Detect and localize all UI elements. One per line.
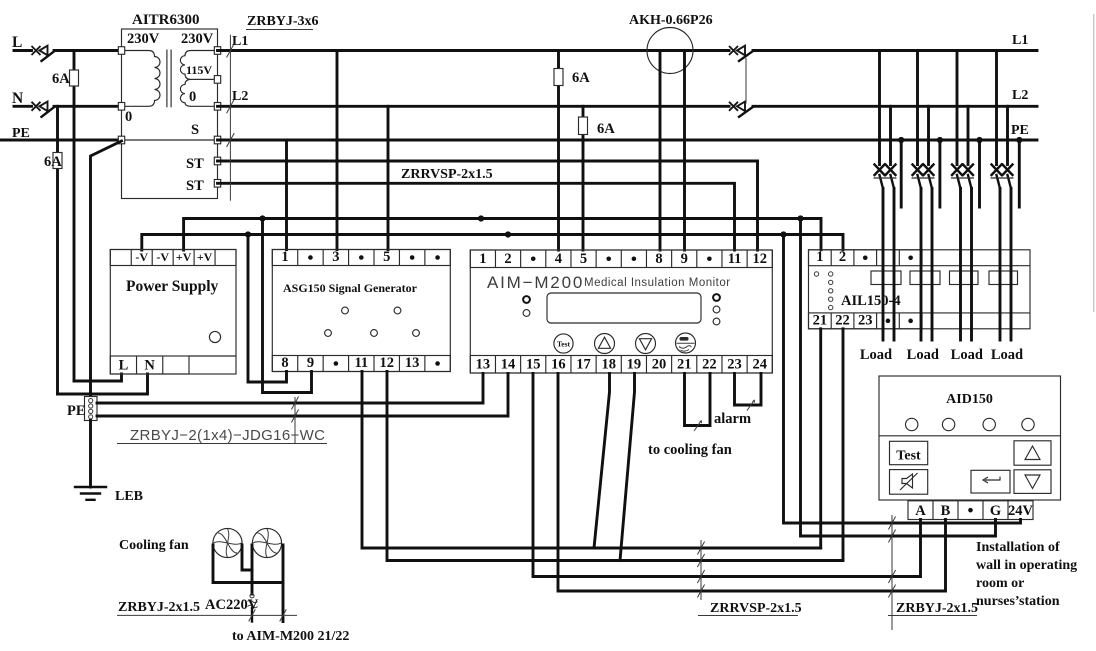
- disconnect switch on N: [32, 102, 55, 117]
- fuse 6A on N feed: [56, 106, 59, 394]
- svg-text:-V: -V: [135, 250, 148, 264]
- ASG150 top terminal strip: [272, 250, 450, 266]
- cooling fan motor 2: [252, 528, 281, 557]
- svg-text:ZRRVSP-2x1.5: ZRRVSP-2x1.5: [710, 601, 802, 616]
- svg-text:+V: +V: [176, 250, 192, 264]
- ASG150 LEDs: [342, 307, 349, 314]
- wire PE drop from transformer to PE terminal block: [91, 141, 122, 397]
- load branch breaker 2 pole L2: [927, 106, 930, 164]
- wire ASG9 to +V bus: [263, 219, 312, 393]
- AIM-M200 LCD display: [547, 293, 701, 323]
- svg-text:ZRBYJ-2x1.5: ZRBYJ-2x1.5: [896, 601, 978, 616]
- svg-text:8: 8: [281, 355, 288, 371]
- svg-text:wall in operating: wall in operating: [976, 558, 1077, 573]
- svg-text:22: 22: [835, 312, 850, 328]
- CT lead to AIM terminal 8: [659, 51, 662, 251]
- svg-text:Load: Load: [991, 347, 1023, 363]
- svg-text:115V: 115V: [186, 63, 212, 77]
- AIM-M200 Test button: [554, 334, 573, 353]
- AID150 separator line: [879, 435, 1061, 437]
- svg-text:L: L: [119, 358, 129, 374]
- svg-text:B: B: [941, 503, 951, 519]
- svg-text:5: 5: [580, 251, 587, 267]
- wire +V bus to AID G: [801, 219, 996, 537]
- AIM-M200 right LEDs: [713, 294, 720, 301]
- AIL current transformer CT2: [910, 271, 940, 285]
- wire L2 to ASG terminal 5: [387, 106, 390, 249]
- svg-text:L: L: [12, 34, 22, 51]
- wire -V bus to AID 24V: [784, 235, 1021, 524]
- svg-text:nurses’station: nurses’station: [976, 594, 1060, 609]
- svg-text:11: 11: [728, 251, 742, 267]
- fuse 6A L2 to AIM terminal 5: [582, 106, 585, 250]
- PE terminal block: [85, 397, 98, 421]
- svg-text:N: N: [144, 358, 155, 374]
- AID150 down button: [1014, 470, 1051, 494]
- svg-text:PE: PE: [67, 403, 86, 419]
- load current monitor AIL150-4 box: [809, 250, 1031, 329]
- svg-text:17: 17: [576, 357, 591, 373]
- svg-text:AIM−M200: AIM−M200: [487, 273, 584, 292]
- svg-text:230V: 230V: [127, 31, 160, 47]
- wire S line to ASG terminal 1: [285, 140, 288, 250]
- cooling fan wiring: [213, 545, 283, 583]
- svg-text:22: 22: [702, 357, 717, 373]
- AC source terminal: [250, 594, 254, 598]
- svg-text:21: 21: [677, 357, 692, 373]
- svg-text:1: 1: [479, 251, 486, 267]
- svg-text:2: 2: [504, 251, 511, 267]
- switch mechanical link: [745, 58, 747, 104]
- load branch breaker 3 pole L2: [967, 106, 970, 164]
- load branch breaker 2 link bar: [912, 177, 935, 179]
- svg-text:2: 2: [839, 249, 846, 265]
- load branch breaker 1 pole L1: [878, 51, 881, 165]
- CT lead to AIM terminal 9: [683, 51, 686, 251]
- AIM-M200 up button: [595, 334, 615, 354]
- wire ASG8 to -V bus: [248, 235, 287, 383]
- svg-text:24: 24: [752, 357, 767, 373]
- svg-text:S: S: [191, 122, 199, 138]
- wire bus L2: [218, 105, 730, 108]
- svg-text:AKH-0.66P26: AKH-0.66P26: [629, 13, 713, 28]
- svg-text:9: 9: [307, 355, 314, 371]
- svg-text:12: 12: [752, 251, 767, 267]
- fuse 6A L1 to AIM terminal 4: [557, 51, 560, 251]
- svg-text:Cooling fan: Cooling fan: [119, 538, 189, 553]
- svg-text:0: 0: [189, 89, 196, 105]
- svg-text:13: 13: [405, 355, 420, 371]
- drawing border fragment right edge: [1093, 14, 1095, 312]
- svg-text:L2: L2: [232, 89, 248, 104]
- svg-text:21: 21: [813, 312, 828, 328]
- svg-text:alarm: alarm: [714, 411, 751, 427]
- power bus -V net y234: [142, 235, 843, 251]
- svg-text:PE: PE: [1011, 123, 1029, 138]
- load branch breaker 1 pole L2: [889, 106, 892, 164]
- load branch breaker 4 link bar: [991, 177, 1014, 179]
- AID150 mute button: [890, 470, 928, 495]
- svg-text:1: 1: [816, 249, 823, 265]
- AID150 terminal strip: [908, 501, 1033, 520]
- cable marker ZRRVSP-2x1.5 bottom: [700, 540, 702, 600]
- svg-text:ZRBYJ-3x6: ZRBYJ-3x6: [247, 14, 319, 29]
- wire RS485 B bus ASG12 AIM19 to AIL22: [387, 372, 843, 561]
- load branch breaker 2 pole L1: [916, 51, 919, 165]
- svg-text:AC220V: AC220V: [205, 597, 259, 613]
- wire RS485 A bus ASG11 AIM18 to AIL21: [362, 372, 821, 549]
- power bus +V net y218: [184, 219, 821, 251]
- svg-text:18: 18: [601, 357, 616, 373]
- wire AIM23 AIM24 alarm stub: [735, 374, 762, 406]
- AIM-M200 top terminal strip: [470, 250, 772, 268]
- wire ST1 to AIM terminal 12: [218, 161, 758, 250]
- svg-text:23: 23: [727, 357, 742, 373]
- svg-text:Load: Load: [951, 347, 983, 363]
- svg-text:23: 23: [858, 312, 873, 328]
- svg-text:ST: ST: [186, 178, 204, 194]
- svg-text:LEB: LEB: [115, 489, 143, 504]
- wire PE block to earth: [89, 421, 92, 488]
- AIM-M200 mute button: [676, 333, 696, 353]
- svg-text:16: 16: [551, 357, 566, 373]
- svg-text:+V: +V: [197, 250, 213, 264]
- svg-text:1: 1: [281, 249, 288, 265]
- svg-text:Medical Insulation Monitor: Medical Insulation Monitor: [584, 277, 731, 289]
- AIL current transformer CT3: [950, 271, 979, 285]
- wire AIM21 AIM22 cooling fan stub: [685, 374, 711, 426]
- wire AIM14 to PE block: [97, 374, 508, 417]
- AIL current transformer CT4: [989, 271, 1018, 285]
- disconnect switch on L: [32, 46, 55, 61]
- svg-text:9: 9: [681, 251, 688, 267]
- svg-text:Test: Test: [896, 449, 921, 464]
- svg-text:4: 4: [555, 251, 562, 267]
- transformer secondary winding with 115V tap: [180, 51, 217, 80]
- svg-text:Power Supply: Power Supply: [126, 278, 219, 295]
- svg-text:24V: 24V: [1008, 503, 1034, 519]
- current transformer AKH-0.66P26: [647, 28, 693, 74]
- power supply LED: [209, 331, 220, 342]
- svg-text:8: 8: [655, 251, 662, 267]
- AIL current transformer CT1: [871, 271, 901, 285]
- cable marker ZRBYJ-2(1x4)-JDG16-WC: [294, 397, 296, 444]
- svg-text:AID150: AID150: [946, 392, 993, 407]
- svg-text:Installation of: Installation of: [976, 540, 1060, 555]
- svg-text:ASG150 Signal Generator: ASG150 Signal Generator: [283, 281, 418, 295]
- svg-text:19: 19: [627, 357, 642, 373]
- wire N feed to Power Supply N terminal: [58, 374, 148, 394]
- svg-text:room or: room or: [976, 576, 1024, 591]
- main switch on L1: [729, 46, 753, 61]
- AIM-M200 left LEDs: [523, 296, 530, 303]
- remote indicator AID150 box: [879, 376, 1061, 500]
- AID150 LEDs: [906, 418, 918, 430]
- svg-text:Load: Load: [907, 347, 939, 363]
- AIL150-4 LEDs: [814, 272, 818, 276]
- load branch breaker 3 pole L1: [956, 51, 959, 165]
- signal generator ASG150 box: [272, 250, 450, 372]
- wire PE bus left: [0, 139, 122, 142]
- svg-text:6A: 6A: [572, 70, 590, 86]
- load branch breaker 4 pole L2: [1006, 106, 1009, 164]
- insulation monitor AIM-M200 box: [470, 250, 772, 373]
- fuse 6A on L feed: [73, 51, 76, 382]
- svg-text:6A: 6A: [52, 71, 70, 87]
- main switch on L2: [729, 102, 753, 117]
- ASG150 bottom terminal strip: [272, 356, 450, 372]
- svg-text:L1: L1: [1012, 33, 1028, 48]
- power supply top terminal strip: [110, 250, 236, 266]
- svg-text:G: G: [990, 503, 1001, 519]
- cooling fan motor 1: [213, 528, 242, 557]
- svg-text:3: 3: [332, 249, 339, 265]
- load branch breaker 1 link bar: [874, 177, 897, 179]
- cable marker ZRBYJ-2x1.5 right: [891, 515, 893, 630]
- svg-text:12: 12: [379, 355, 394, 371]
- svg-text:to AIM-M200 21/22: to AIM-M200 21/22: [232, 629, 349, 644]
- wire AIM15 to AID A: [533, 374, 921, 577]
- svg-text:14: 14: [501, 357, 516, 373]
- AID150 up button: [1014, 441, 1051, 465]
- wire bus PE S: [218, 139, 1038, 142]
- svg-text:6A: 6A: [597, 121, 615, 137]
- svg-text:0: 0: [125, 109, 132, 125]
- svg-text:ZRBYJ-2x1.5: ZRBYJ-2x1.5: [118, 600, 200, 615]
- AID150 Test button: [890, 441, 928, 464]
- wire L to transformer: [54, 49, 122, 52]
- svg-text:5: 5: [383, 249, 390, 265]
- wire bus L1: [218, 49, 730, 52]
- svg-text:L2: L2: [1012, 88, 1028, 103]
- svg-text:to cooling fan: to cooling fan: [648, 442, 732, 458]
- power supply bottom terminal strip L N: [110, 356, 189, 374]
- wire L1 to ASG terminal 3: [336, 51, 339, 250]
- load branch 1 PE stub: [898, 137, 904, 143]
- svg-text:ST: ST: [186, 156, 204, 172]
- load branch 4 PE stub: [1016, 137, 1022, 143]
- svg-text:6A: 6A: [44, 154, 62, 170]
- wire AIM13 to PE block: [97, 374, 483, 404]
- svg-text:Load: Load: [860, 347, 892, 363]
- svg-text:230V: 230V: [181, 31, 214, 47]
- svg-text:AITR6300: AITR6300: [132, 12, 200, 28]
- svg-text:N: N: [12, 90, 23, 107]
- svg-text:15: 15: [526, 357, 541, 373]
- svg-text:-V: -V: [156, 250, 169, 264]
- wire N incoming: [14, 105, 32, 108]
- AIM-M200 bottom terminal strip: [470, 356, 772, 374]
- AIM-M200 down button: [636, 334, 656, 354]
- AIL150-4 top terminal strip: [809, 250, 923, 266]
- cable marker ZRBYJ-3x6: [229, 35, 231, 201]
- AIL150-4 bottom terminal strip: [809, 313, 923, 329]
- svg-text:11: 11: [354, 355, 368, 371]
- svg-text:A: A: [915, 503, 926, 519]
- load branch breaker 3 link bar: [951, 177, 974, 179]
- svg-text:AIL150-4: AIL150-4: [841, 293, 901, 309]
- earth electrode LEB: [75, 487, 106, 500]
- wire ST2 to AIM terminal 11: [218, 183, 735, 250]
- wire AIM16 to AID B: [558, 374, 946, 592]
- svg-text:Test: Test: [557, 340, 571, 349]
- svg-text:13: 13: [476, 357, 491, 373]
- svg-text:L1: L1: [232, 34, 248, 49]
- wire L feed to Power Supply L terminal: [74, 374, 122, 381]
- svg-text:ZRBYJ−2(1x4)−JDG16−WC: ZRBYJ−2(1x4)−JDG16−WC: [130, 427, 325, 444]
- load branch 3 PE stub: [976, 137, 982, 143]
- wire N to transformer: [54, 105, 122, 108]
- transformer primary winding: [122, 51, 161, 107]
- load branch breaker 4 pole L1: [995, 51, 998, 165]
- transformer terminal pins: [118, 47, 124, 55]
- svg-text:20: 20: [652, 357, 667, 373]
- svg-text:ZRRVSP-2x1.5: ZRRVSP-2x1.5: [401, 167, 493, 182]
- AID150 enter button: [971, 470, 1010, 493]
- power supply unit box: [110, 250, 236, 375]
- wire L incoming: [14, 49, 32, 52]
- transformer AITR6300 box: [122, 29, 218, 199]
- transformer core: [166, 50, 168, 108]
- load branch 2 PE stub: [937, 137, 943, 143]
